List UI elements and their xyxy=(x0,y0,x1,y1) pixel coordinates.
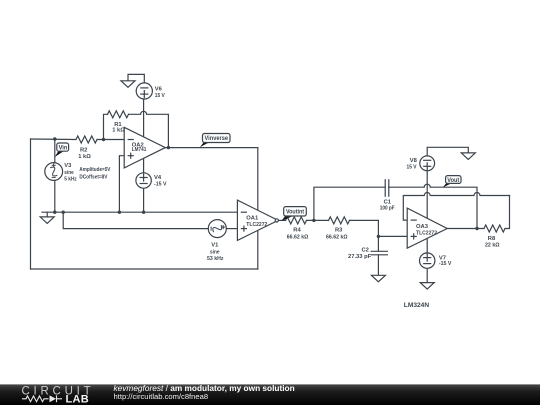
ground top-left xyxy=(121,81,135,88)
flag Vin xyxy=(55,143,69,157)
svg-text:27.33 pF: 27.33 pF xyxy=(348,254,372,260)
svg-text:V8: V8 xyxy=(410,158,418,164)
node ground rail V4 xyxy=(142,211,145,214)
wire ground stem G2 xyxy=(46,212,48,217)
wire C2 bottom to ground xyxy=(377,255,379,275)
wire C1 right with hop to output xyxy=(389,184,477,228)
wire V1 branch xyxy=(63,212,208,228)
wire R4 to R3 xyxy=(307,219,329,221)
svg-text:LM741: LM741 xyxy=(132,147,147,153)
wire bottom rail xyxy=(31,268,258,270)
svg-text:TLC2272: TLC2272 xyxy=(246,222,267,228)
svg-text:100 pF: 100 pF xyxy=(380,206,395,212)
svg-text:C2: C2 xyxy=(362,248,369,254)
wire V7 bottom to ground xyxy=(426,268,428,282)
svg-text:LM324N: LM324N xyxy=(404,302,430,309)
wire OA2 V+ xyxy=(143,99,145,137)
svg-text:22 kΩ: 22 kΩ xyxy=(485,243,500,249)
wire V3 top stub xyxy=(54,139,56,163)
source V7 dc xyxy=(420,253,435,268)
node ground rail V3 xyxy=(53,211,56,214)
flag Vout xyxy=(443,176,461,188)
wire V3 bottom stub xyxy=(54,181,56,213)
svg-text:V3: V3 xyxy=(64,163,72,169)
node R3/C2/OA3 plus xyxy=(377,235,380,238)
svg-text:OA3: OA3 xyxy=(416,224,429,230)
svg-text:http://circuitlab.com/c8fnea8: http://circuitlab.com/c8fnea8 xyxy=(114,392,209,401)
ground below V7 xyxy=(420,283,434,290)
source V5 dc xyxy=(136,83,152,99)
svg-text:sine: sine xyxy=(64,170,74,176)
svg-text:Amplitude=5V: Amplitude=5V xyxy=(79,167,110,173)
op-amp OA3 xyxy=(407,208,447,248)
svg-text:DCoffset=8V: DCoffset=8V xyxy=(79,175,107,181)
svg-text:1 kΩ: 1 kΩ xyxy=(112,128,125,134)
capacitor C1 xyxy=(385,180,389,196)
svg-text:1 kΩ: 1 kΩ xyxy=(78,154,91,160)
wire V4 top to OA2 xyxy=(143,158,145,173)
wire R2 right to OA2 minus xyxy=(97,139,124,141)
svg-text:Vout: Vout xyxy=(447,178,459,184)
svg-text:R3: R3 xyxy=(335,228,343,234)
node Vin/V3 xyxy=(53,137,56,140)
wire Vin top rail xyxy=(31,138,77,141)
ground top-right xyxy=(461,153,475,160)
svg-text:-15 V: -15 V xyxy=(439,261,452,267)
flag Voutint xyxy=(281,207,306,221)
wire R1 left feedback xyxy=(104,114,108,139)
wire R3 right corner down xyxy=(350,220,379,251)
source V3 sine xyxy=(45,163,63,181)
node junction dots xyxy=(53,137,479,238)
resistor R1 xyxy=(108,111,129,118)
svg-text:V4: V4 xyxy=(154,175,162,181)
resistor R8 xyxy=(484,225,505,232)
svg-text:R2: R2 xyxy=(80,147,87,153)
svg-text:-15 V: -15 V xyxy=(154,182,167,188)
source V4 dc xyxy=(136,173,151,188)
wire R8 right up xyxy=(505,196,510,229)
wire OA2 output xyxy=(165,147,257,149)
wire R3C2 node to OA3 plus xyxy=(378,235,407,237)
svg-text:sine: sine xyxy=(210,249,220,255)
wire OA1 output to R4 xyxy=(278,219,285,221)
wire feedback top with hops xyxy=(403,193,509,221)
svg-text:LAB: LAB xyxy=(66,394,90,405)
svg-text:V1: V1 xyxy=(211,243,219,249)
node OA3 output xyxy=(475,227,478,230)
wire OA3 bottom pin to V7 xyxy=(426,238,428,253)
resistor R3 xyxy=(329,217,350,224)
node R4/R3/C1 xyxy=(312,219,315,222)
resistor R4 xyxy=(286,217,307,224)
logo circuit symbol: wire, resistor zigzag, diode xyxy=(22,395,62,402)
svg-text:Vinverse: Vinverse xyxy=(205,136,229,142)
svg-text:15 V: 15 V xyxy=(155,93,165,99)
source V8 dc xyxy=(420,156,435,171)
svg-text:TLC2272: TLC2272 xyxy=(416,231,437,237)
wire OA2 plus ground xyxy=(119,156,124,213)
wire OA1 V- stub xyxy=(257,230,259,269)
source V1 sine xyxy=(208,220,226,238)
op-amp OA2 xyxy=(124,127,165,168)
resistor R2 xyxy=(76,136,97,143)
capacitor C2 xyxy=(371,251,387,255)
wire node to C1 left xyxy=(314,187,385,220)
node ground rail OA2 plus xyxy=(118,211,121,214)
op-amp OA1 xyxy=(237,200,278,240)
wire R1 right with hop xyxy=(129,111,169,147)
wire V8 top to ground xyxy=(427,147,468,156)
svg-text:R8: R8 xyxy=(488,236,496,242)
wire left vertical xyxy=(30,139,32,269)
svg-text:5 kHz: 5 kHz xyxy=(64,177,77,183)
svg-text:V6: V6 xyxy=(155,86,163,92)
ground left rail xyxy=(40,217,54,224)
wire V5 top to ground xyxy=(128,74,144,83)
node OA2 output feedback xyxy=(167,146,170,149)
wire Vinverse down to OA1 V+ xyxy=(257,148,259,211)
svg-text:53 kHz: 53 kHz xyxy=(207,256,224,262)
svg-text:OA1: OA1 xyxy=(246,216,259,222)
svg-text:15 V: 15 V xyxy=(407,165,417,171)
svg-text:Voutint: Voutint xyxy=(286,210,304,216)
wire OA3 output to R8 xyxy=(447,228,484,230)
svg-text:66.62 kΩ: 66.62 kΩ xyxy=(287,234,309,240)
wire V1 to OA1 plus xyxy=(226,228,237,230)
wire ground rail xyxy=(42,211,237,213)
wire V8 bottom to OA3 xyxy=(426,171,428,219)
svg-text:C1: C1 xyxy=(384,199,392,205)
flag Vinverse xyxy=(200,134,230,148)
node R1/R2 xyxy=(102,138,105,141)
svg-text:R4: R4 xyxy=(293,228,301,234)
svg-text:Vin: Vin xyxy=(59,146,68,152)
wire V4 bottom xyxy=(143,188,145,212)
node ground rail V1 branch xyxy=(62,211,65,214)
ground below C2 xyxy=(371,275,385,282)
svg-text:66.62 kΩ: 66.62 kΩ xyxy=(326,234,348,240)
